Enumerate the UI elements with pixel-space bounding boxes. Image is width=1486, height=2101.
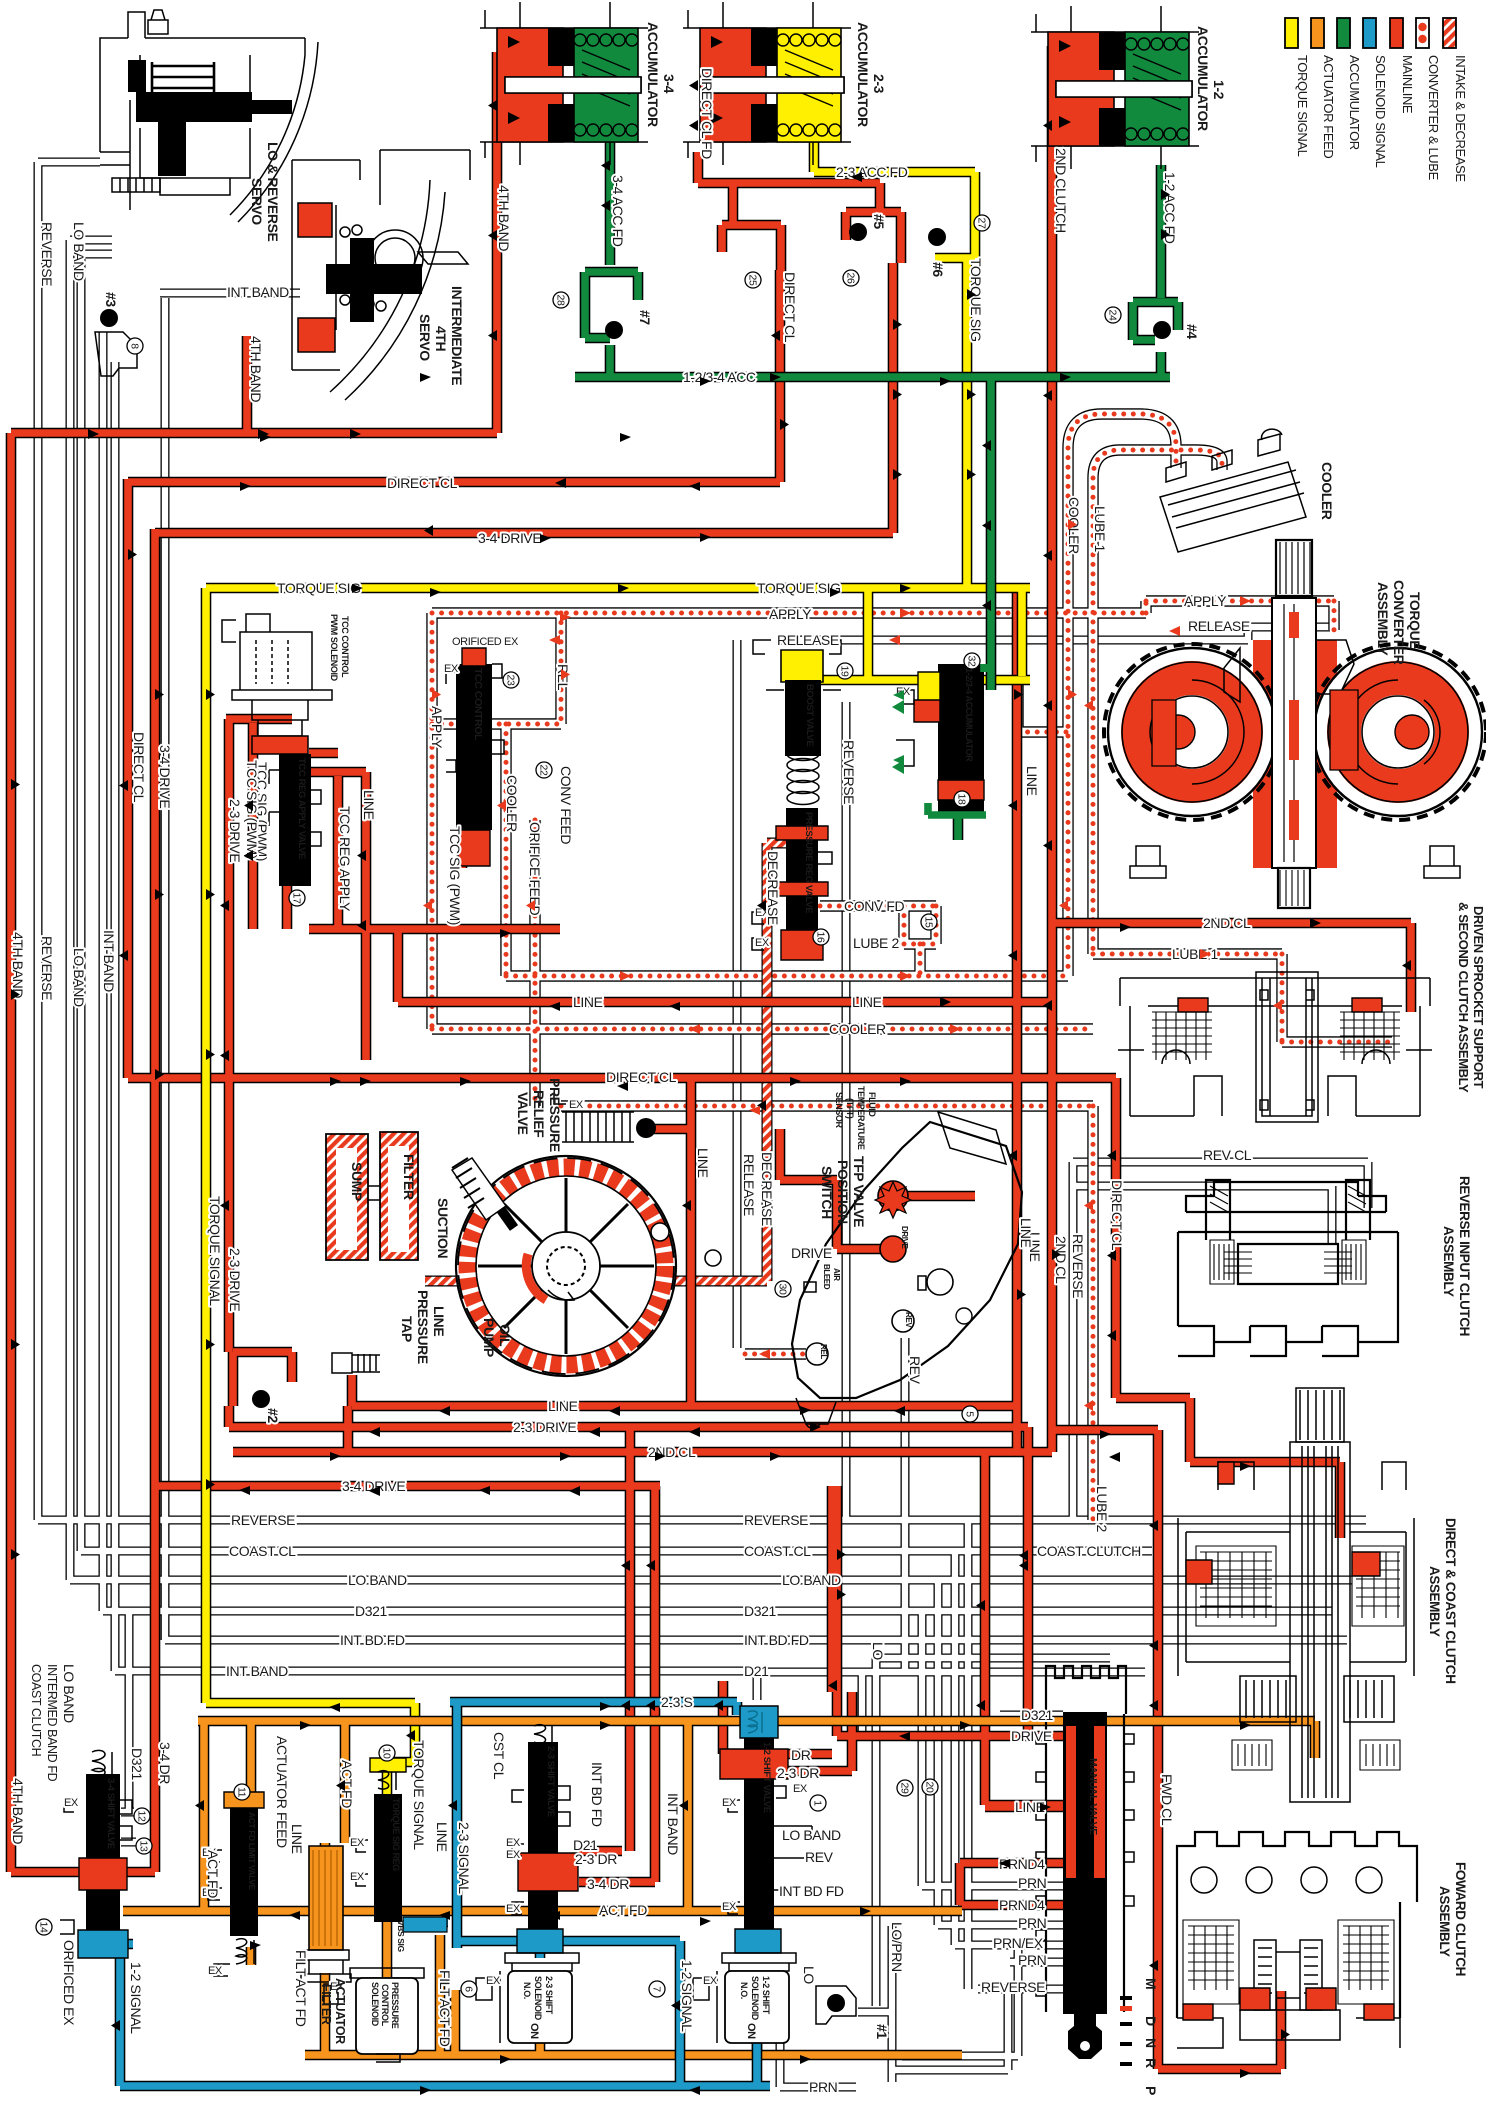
svg-text:PRESSURE: PRESSURE [547,1078,563,1152]
svg-text:D321: D321 [129,1748,145,1780]
svg-text:LINE: LINE [361,790,377,820]
svg-text:COAST CLUTCH: COAST CLUTCH [29,1664,43,1757]
svg-text:CONV FD: CONV FD [844,898,904,914]
svg-text:D21: D21 [744,1663,769,1679]
svg-text:ACT FD LIMIT VALVE: ACT FD LIMIT VALVE [247,1812,257,1891]
svg-text:10: 10 [381,1748,393,1759]
svg-text:LO BAND: LO BAND [782,1827,841,1843]
svg-text:13: 13 [138,1841,150,1852]
svg-text:ACT FD: ACT FD [205,1850,221,1898]
svg-text:PWM SOLENOID: PWM SOLENOID [329,614,339,682]
svg-text:2-3 DRIVE: 2-3 DRIVE [513,1419,576,1435]
svg-text:ACCUMULATOR: ACCUMULATOR [1347,55,1362,150]
svg-text:CONVERTER & LUBE: CONVERTER & LUBE [1426,55,1441,181]
svg-text:1: 1 [812,1800,824,1806]
svg-text:MAINLINE: MAINLINE [1400,55,1415,114]
svg-text:MANUAL VALVE: MANUAL VALVE [1087,1758,1099,1835]
svg-text:12: 12 [136,1811,148,1822]
svg-text:1-2: 1-2 [1211,80,1227,100]
svg-text:SENSOR: SENSOR [834,1092,844,1129]
svg-text:ORIFICED EX: ORIFICED EX [452,636,519,648]
svg-text:APPLY: APPLY [429,706,445,749]
svg-text:2ND CL: 2ND CL [1203,915,1251,931]
svg-text:1-2/3-4 ACC: 1-2/3-4 ACC [683,369,756,385]
svg-text:R: R [1143,2058,1159,2068]
svg-text:FILTER: FILTER [319,1984,333,2025]
svg-text:INT BD FD: INT BD FD [589,1762,605,1827]
torque sig reg valve [370,1758,406,1772]
svg-text:2-3: 2-3 [871,74,887,94]
pressure relief valve [554,1094,634,1142]
#3 check valve [95,332,137,376]
2-3 accumulator [683,2,851,165]
svg-text:INT BD FD: INT BD FD [340,1632,405,1648]
svg-text:POSITION: POSITION [835,1160,851,1224]
TCC control valve [456,664,492,830]
svg-text:CST CL: CST CL [491,1732,507,1780]
int servo piston [326,238,422,322]
svg-text:LINE: LINE [852,994,882,1010]
svg-text:LINE: LINE [573,994,603,1010]
svg-text:ASSEMBLY: ASSEMBLY [1427,1566,1442,1637]
svg-text:DRIVE: DRIVE [1011,1728,1052,1744]
svg-text:1-2 SIGNAL: 1-2 SIGNAL [128,1962,144,2034]
svg-text:DIRECT CL: DIRECT CL [606,1069,677,1085]
svg-text:EX: EX [486,1975,501,1987]
svg-text:TFP VALVE: TFP VALVE [851,1156,867,1227]
svg-text:INT BAND: INT BAND [101,930,117,992]
svg-text:PRN: PRN [1018,1915,1046,1931]
svg-text:TEMPERATURE: TEMPERATURE [856,1086,866,1150]
oil pump [452,1156,721,1376]
svg-text:D321: D321 [744,1603,776,1619]
svg-text:LUBE 2: LUBE 2 [853,935,899,951]
svg-text:ACCUMULATOR: ACCUMULATOR [855,22,871,127]
svg-text:DRIVE: DRIVE [791,1245,832,1261]
svg-text:TCC REG APPLY: TCC REG APPLY [337,806,353,912]
svg-text:#2: #2 [265,1408,281,1423]
svg-text:TORQUE SIGNAL: TORQUE SIGNAL [411,1740,427,1850]
svg-text:TCC REG APPLY VALVE: TCC REG APPLY VALVE [296,758,307,859]
svg-text:11: 11 [236,1787,248,1798]
svg-text:DIRECT CL: DIRECT CL [387,475,458,491]
svg-text:18: 18 [956,794,968,805]
svg-text:PRESSURE: PRESSURE [390,1982,400,2029]
svg-text:SOLENOID: SOLENOID [370,1982,380,2027]
svg-text:REVERSE: REVERSE [39,936,55,1000]
svg-text:REVERSE: REVERSE [981,1979,1045,1995]
svg-text:4TH BAND: 4TH BAND [496,185,512,251]
svg-text:INTAKE & DECREASE: INTAKE & DECREASE [1453,55,1468,182]
svg-text:17: 17 [291,893,303,904]
svg-text:OIL: OIL [497,1324,513,1347]
svg-text:25: 25 [747,275,759,286]
svg-text:ASSEMBLY: ASSEMBLY [1437,1886,1452,1957]
boost valve spring [787,748,819,805]
svg-text:16: 16 [815,932,827,943]
svg-text:INT BAND: INT BAND [665,1793,681,1855]
svg-text:15: 15 [923,917,935,928]
svg-text:LO: LO [870,1642,886,1660]
svg-text:EX: EX [350,1837,365,1849]
svg-text:EX: EX [793,1783,808,1795]
svg-text:COAST CLUTCH: COAST CLUTCH [1037,1543,1141,1559]
lo&rev servo piston [128,60,292,176]
svg-text:PRESSURE REG VALVE: PRESSURE REG VALVE [803,812,814,913]
svg-text:1-2 SHIFT VALVE: 1-2 SHIFT VALVE [761,1742,772,1813]
svg-text:CONTROL: CONTROL [380,1984,390,2027]
driven sprocket & 2nd clutch assembly [1118,972,1432,1122]
svg-text:3-4 SHIFT VALVE: 3-4 SHIFT VALVE [105,1778,116,1849]
svg-text:DR: DR [791,1747,811,1763]
svg-text:D321: D321 [355,1603,387,1619]
svg-text:2-3 S: 2-3 S [661,1694,693,1710]
svg-text:INT BAND: INT BAND [226,1663,288,1679]
act fd limit valve [224,1792,264,1808]
svg-text:DRIVEN SPROCKET SUPPORT: DRIVEN SPROCKET SUPPORT [1471,906,1486,1089]
svg-text:AIR: AIR [832,1268,841,1281]
#N ball labels [103,214,1200,2039]
svg-text:2-3 DRIVE: 2-3 DRIVE [227,1248,243,1311]
svg-text:REL: REL [819,1344,828,1359]
svg-text:28: 28 [555,295,567,306]
svg-text:SOLENOID: SOLENOID [750,1976,760,2021]
svg-text:#6: #6 [930,262,946,277]
MDNRP [1143,1978,1159,2095]
svg-text:32: 32 [966,656,978,667]
manual valve [1046,1666,1126,2012]
svg-text:N.O.: N.O. [739,1982,749,1999]
svg-text:FILTER: FILTER [401,1154,417,1200]
svg-text:FLUID: FLUID [867,1092,877,1117]
svg-text:EX: EX [64,1797,79,1809]
int servo red cavities [298,203,335,352]
svg-text:EX: EX [506,1837,521,1849]
svg-text:TORQUE SIG: TORQUE SIG [277,580,361,596]
svg-text:26: 26 [845,273,857,284]
svg-text:EX: EX [722,1797,737,1809]
svg-text:COOLER: COOLER [1319,462,1335,520]
svg-text:ON: ON [745,2023,757,2039]
svg-text:PRN: PRN [809,2079,837,2095]
svg-text:REVERSE: REVERSE [1070,1234,1086,1298]
svg-text:LO BAND: LO BAND [782,1572,841,1588]
svg-text:RELEASE: RELEASE [741,1154,757,1216]
svg-text:LO/PRN: LO/PRN [889,1922,905,1972]
svg-text:INT BD FD: INT BD FD [779,1883,844,1899]
svg-text:PRND4: PRND4 [999,1897,1045,1913]
boost valve [781,650,823,682]
svg-text:INTERMED BAND FD: INTERMED BAND FD [45,1664,59,1782]
red arrows on white/dotted channels [423,519,1282,1411]
3-4 accumulator [480,2,648,165]
svg-text:BOOST VALVE: BOOST VALVE [804,684,815,746]
svg-text:DIRECT CL: DIRECT CL [131,732,147,803]
svg-text:2-3 SHIFT VALVE: 2-3 SHIFT VALVE [545,1746,556,1817]
1-2 accumulator [1031,6,1199,169]
1-2 shift valve [740,1706,778,1738]
svg-text:SOLENOID SIGNAL: SOLENOID SIGNAL [1373,55,1388,168]
svg-text:#7: #7 [637,310,653,325]
svg-text:2-3 ACC FD: 2-3 ACC FD [836,164,908,180]
svg-text:TORQUE SIGNAL: TORQUE SIGNAL [1295,55,1310,157]
svg-text:ASSEMBLY: ASSEMBLY [1441,1226,1456,1297]
svg-text:LO BAND: LO BAND [71,222,87,281]
svg-text:TAP: TAP [399,1316,415,1342]
svg-text:30: 30 [777,1284,789,1295]
svg-text:TORQUE SIG: TORQUE SIG [968,258,984,342]
svg-text:PRESSURE: PRESSURE [415,1290,431,1364]
svg-text:N: N [1143,2038,1159,2048]
1-2/3-4 accumulator valve [938,664,984,814]
svg-text:DIRECT & COAST CLUTCH: DIRECT & COAST CLUTCH [1443,1518,1458,1684]
svg-text:REV: REV [907,1356,923,1385]
svg-text:PUMP: PUMP [481,1318,497,1357]
svg-text:CONV FEED: CONV FEED [558,766,574,844]
svg-text:FWD CL: FWD CL [1159,1774,1175,1826]
svg-text:RELEASE: RELEASE [777,632,839,648]
svg-text:SUMP: SUMP [349,1162,365,1201]
svg-text:2ND CLUTCH: 2ND CLUTCH [1053,148,1069,233]
sump [326,1134,368,1260]
svg-text:ACT FD: ACT FD [599,1902,647,1918]
svg-text:ACCUMULATOR: ACCUMULATOR [645,22,661,127]
svg-text:APPLY: APPLY [1184,593,1227,609]
svg-text:#1: #1 [874,2024,890,2039]
svg-text:D321: D321 [1021,1707,1053,1723]
svg-text:FILT ACT FD: FILT ACT FD [293,1950,309,2027]
svg-text:14: 14 [38,1922,50,1933]
svg-text:2-3 DR: 2-3 DR [777,1765,819,1781]
svg-text:(TFT): (TFT) [845,1098,855,1119]
svg-text:RELEASE: RELEASE [1188,618,1250,634]
svg-text:4TH BAND: 4TH BAND [248,336,264,402]
pressure control solenoid [350,1968,424,1978]
forward clutch assembly [1177,1832,1417,2048]
svg-text:COAST CL: COAST CL [744,1543,811,1559]
svg-text:20: 20 [924,1782,936,1793]
svg-text:1-2 SIGNAL: 1-2 SIGNAL [679,1960,695,2032]
svg-text:INT BD FD: INT BD FD [744,1632,809,1648]
svg-text:LO BAND: LO BAND [61,1664,77,1723]
svg-text:M: M [1143,1978,1159,1989]
2-3 shift valve [534,1725,552,1746]
svg-text:3-4 ACC FD: 3-4 ACC FD [610,175,626,247]
svg-text:REVERSE INPUT CLUTCH: REVERSE INPUT CLUTCH [1457,1176,1472,1336]
svg-text:ACTUATOR FEED: ACTUATOR FEED [1321,55,1336,158]
svg-text:#5: #5 [871,214,887,229]
svg-text:LO BAND: LO BAND [71,948,87,1007]
svg-text:4TH: 4TH [433,326,449,352]
svg-text:LO: LO [801,1966,817,1984]
svg-text:DIRECT CL: DIRECT CL [1109,1180,1125,1251]
svg-text:23: 23 [505,675,517,686]
green arrows [893,690,904,765]
svg-text:3-4 DRIVE: 3-4 DRIVE [157,745,173,808]
svg-text:INT BAND: INT BAND [227,284,289,300]
svg-text:27: 27 [976,218,988,229]
svg-text:EX: EX [569,1099,584,1111]
svg-text:5: 5 [964,1411,976,1417]
svg-text:ACTUATOR FEED: ACTUATOR FEED [274,1736,290,1848]
svg-text:LO BAND: LO BAND [348,1572,407,1588]
svg-text:EX: EX [722,1901,737,1913]
svg-text:3-4 DRIVE: 3-4 DRIVE [478,530,541,546]
svg-text:EX: EX [350,1871,365,1883]
svg-text:RELIEF: RELIEF [531,1090,547,1138]
svg-text:TORQUE: TORQUE [1407,592,1423,649]
gear indicator MDNRP [1120,1996,1132,2066]
svg-text:1-2 SHIFT: 1-2 SHIFT [761,1976,771,2015]
svg-text:19: 19 [839,666,851,677]
svg-text:LINE: LINE [289,1824,305,1854]
svg-text:VALVE: VALVE [515,1092,531,1135]
line pressure tap [332,1353,380,1373]
svg-text:1-2/3-4 ACCUMULATOR: 1-2/3-4 ACCUMULATOR [964,668,974,762]
svg-text:FILT ACT FD: FILT ACT FD [437,1970,453,2047]
svg-text:INTERMEDIATE: INTERMEDIATE [449,286,465,385]
TCC pwm solenoid [222,614,332,736]
svg-text:#3: #3 [103,292,119,307]
svg-text:3-4 DR: 3-4 DR [587,1876,629,1892]
svg-text:6: 6 [463,1986,475,1992]
svg-text:TCC SIG (PWM): TCC SIG (PWM) [447,826,463,925]
svg-text:8: 8 [129,343,141,349]
svg-text:LINE: LINE [695,1148,711,1178]
svg-text:LINE: LINE [1024,766,1040,796]
svg-text:D: D [1143,2016,1159,2026]
svg-text:COAST CL: COAST CL [229,1543,296,1559]
svg-text:3-4: 3-4 [661,74,677,94]
svg-text:TORQUE SIG: TORQUE SIG [757,580,841,596]
svg-text:COOLER: COOLER [829,1021,886,1037]
svg-text:REVERSE: REVERSE [231,1512,295,1528]
svg-text:EX: EX [208,1965,223,1977]
actuator filter [309,1846,343,1950]
svg-text:ORIFICED EX: ORIFICED EX [61,1940,77,2026]
svg-text:EX: EX [506,1903,521,1915]
svg-text:REVERSE: REVERSE [744,1512,808,1528]
svg-text:EX: EX [506,1849,521,1861]
svg-text:DIRECT CL FD: DIRECT CL FD [699,68,715,159]
intermediate 4th servo [292,150,470,400]
svg-text:COOLER: COOLER [504,775,520,832]
reverse input clutch assembly [1178,1180,1398,1356]
svg-text:LINE: LINE [1018,1218,1034,1248]
svg-text:& SECOND CLUTCH ASSEMBLY: & SECOND CLUTCH ASSEMBLY [1456,902,1471,1093]
svg-text:#4: #4 [1184,324,1200,339]
svg-text:EX: EX [755,937,770,949]
TCC reg apply valve [279,754,311,886]
svg-text:N.O.: N.O. [522,1982,532,1999]
svg-text:APPLY: APPLY [769,606,812,622]
svg-text:REV CL: REV CL [1203,1147,1252,1163]
svg-text:SERVO: SERVO [417,314,433,361]
direct & coast clutch assembly [1178,1388,1414,1802]
svg-text:EX: EX [703,1975,718,1987]
svg-text:LUBE 1: LUBE 1 [1092,506,1108,552]
svg-text:PRN: PRN [1018,1875,1046,1891]
svg-text:ASSEMBLY: ASSEMBLY [1375,582,1391,656]
legend labels [1295,55,1468,182]
svg-text:TORQUE SIG REG: TORQUE SIG REG [391,1798,401,1871]
svg-text:TORQUE SIGNAL: TORQUE SIGNAL [207,1196,223,1306]
svg-text:4TH BAND: 4TH BAND [10,932,26,998]
TFP valve position switch [792,1112,1022,1428]
svg-text:FOWARD CLUTCH: FOWARD CLUTCH [1453,1862,1468,1976]
svg-text:TCC CONTROL: TCC CONTROL [472,668,484,741]
svg-text:PRN: PRN [1018,1952,1046,1968]
svg-text:REV: REV [904,1312,913,1328]
svg-text:SOLENOID: SOLENOID [533,1976,543,2021]
svg-text:2ND CL: 2ND CL [1053,1236,1069,1284]
svg-text:2-3 DR: 2-3 DR [575,1851,617,1867]
svg-text:DIRECT CL: DIRECT CL [782,272,798,343]
svg-text:DECREASE: DECREASE [765,851,781,925]
svg-text:SUCTION: SUCTION [435,1198,451,1258]
filter [380,1132,418,1260]
bolt adjuster lo&rev [112,178,160,192]
svg-text:REV: REV [805,1849,834,1865]
svg-text:29: 29 [899,1783,911,1794]
svg-text:3-4 DR: 3-4 DR [157,1742,173,1784]
svg-text:LO & REVERSE: LO & REVERSE [265,142,281,242]
white-on-black valve texts [105,668,1099,1952]
lo & reverse servo [100,10,318,222]
svg-text:4TH BAND: 4TH BAND [10,1778,26,1844]
#1 check valve [816,1986,856,2024]
svg-text:LUBE 1: LUBE 1 [1172,946,1218,962]
svg-text:2-3 SHIFT: 2-3 SHIFT [544,1976,554,2015]
svg-text:DECREASE: DECREASE [759,1152,775,1226]
svg-text:2-3 SIGNAL: 2-3 SIGNAL [456,1822,472,1894]
svg-text:BLEED: BLEED [822,1264,831,1290]
svg-text:ACCUMULATOR: ACCUMULATOR [1195,26,1211,131]
svg-text:7: 7 [651,1986,663,1992]
svg-text:P: P [1143,2086,1159,2095]
svg-text:2-3 DRIVE: 2-3 DRIVE [227,799,243,862]
svg-text:LINE: LINE [434,1822,450,1852]
svg-text:VBS SIG: VBS SIG [396,1920,406,1952]
pressure reg valve [786,808,818,948]
svg-text:DRIVE: DRIVE [900,1226,909,1250]
svg-text:ACTUATOR: ACTUATOR [333,1978,347,2044]
cooler [1160,429,1306,552]
svg-text:LINE: LINE [548,1398,578,1414]
svg-text:24: 24 [1107,310,1119,321]
svg-text:EX: EX [444,663,459,675]
svg-text:PRN/EX: PRN/EX [993,1935,1044,1951]
svg-text:TCC CONTROL: TCC CONTROL [340,616,350,678]
svg-text:SERVO: SERVO [249,178,265,225]
horizontal pipe labels [226,164,1252,2095]
svg-text:LINE: LINE [431,1306,447,1336]
svg-text:CONVERTER: CONVERTER [1391,580,1407,665]
vertical pipe labels [10,68,1178,2047]
svg-text:ON: ON [528,2023,540,2039]
svg-text:REVERSE: REVERSE [841,740,857,804]
svg-text:SWITCH: SWITCH [819,1166,835,1219]
svg-text:LUBE 2: LUBE 2 [1094,1486,1110,1532]
svg-text:REVERSE: REVERSE [39,222,55,286]
torque converter assembly [1104,540,1486,908]
3-4 shift valve [92,1750,112,1779]
svg-text:22: 22 [538,765,550,776]
